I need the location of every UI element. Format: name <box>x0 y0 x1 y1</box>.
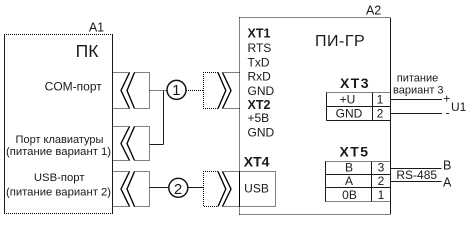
connector X1 COM side plug <box>127 73 150 109</box>
text питание вариант 3 <box>393 72 444 96</box>
connector X3 keyboard port socket <box>113 127 130 161</box>
svg-text:XT5: XT5 <box>340 144 370 160</box>
svg-text:вариант 3: вариант 3 <box>393 85 444 97</box>
svg-text:Порт клавиатуры: Порт клавиатуры <box>16 134 104 146</box>
wire B stub <box>391 168 442 170</box>
wire +U stub <box>391 99 443 101</box>
svg-text:2: 2 <box>377 107 384 121</box>
connector X2 XT1/XT2 side plug <box>204 73 226 109</box>
svg-text:USB-порт: USB-порт <box>34 172 85 184</box>
svg-text:1: 1 <box>172 82 180 99</box>
svg-text:ПК: ПК <box>76 41 100 61</box>
svg-text:RS-485: RS-485 <box>396 168 437 182</box>
connector X3 keyboard port plug <box>127 127 150 161</box>
svg-text:GND: GND <box>248 84 275 98</box>
block A1 box (PC) <box>4 35 113 214</box>
svg-text:XT4: XT4 <box>244 154 270 170</box>
connector X5 XT4 side plug <box>204 172 226 207</box>
svg-text:U1: U1 <box>451 100 467 114</box>
svg-text:B: B <box>345 161 353 175</box>
svg-text:A1: A1 <box>89 21 104 35</box>
svg-text:TxD: TxD <box>248 55 270 69</box>
svg-text:(питание вариант 1): (питание вариант 1) <box>6 146 111 158</box>
svg-text:+U: +U <box>340 92 356 106</box>
connector X4 USB side plug <box>127 172 150 207</box>
svg-text:GND: GND <box>248 126 275 140</box>
svg-text:+: + <box>443 92 450 106</box>
wire A stub <box>391 181 442 183</box>
wire keyboard stub <box>150 144 164 146</box>
svg-text:XT3: XT3 <box>340 75 370 91</box>
svg-text:GND: GND <box>336 107 363 121</box>
svg-text:A: A <box>443 175 452 189</box>
wire GND stub <box>391 113 443 115</box>
svg-text:1: 1 <box>377 92 384 106</box>
svg-text:COM-порт: COM-порт <box>45 80 103 94</box>
connector XT5 pin table <box>326 162 391 202</box>
svg-text:(питание вариант 2): (питание вариант 2) <box>6 186 111 198</box>
svg-text:RxD: RxD <box>248 70 272 84</box>
svg-text:0B: 0B <box>342 188 357 202</box>
wire 1 left segment <box>150 90 168 92</box>
cable marker circle 1 <box>167 80 186 99</box>
wire 2 left segment <box>150 187 169 189</box>
svg-text:B: B <box>443 159 451 173</box>
svg-text:+5B: +5B <box>248 111 270 125</box>
connector X1 COM side socket <box>113 73 130 109</box>
svg-text:1: 1 <box>378 188 385 202</box>
svg-text:3: 3 <box>378 161 385 175</box>
svg-text:RTS: RTS <box>248 41 272 55</box>
block A2 box (PI-GR) <box>240 18 391 215</box>
svg-text:-: - <box>446 106 450 120</box>
svg-text:XT2: XT2 <box>248 98 271 112</box>
svg-text:A2: A2 <box>366 4 381 18</box>
svg-text:USB: USB <box>244 182 269 196</box>
connector X2 XT1/XT2 side socket <box>223 73 240 109</box>
socket XT4 USB box <box>240 172 276 207</box>
svg-text:ПИ-ГР: ПИ-ГР <box>315 33 365 50</box>
svg-text:XT1: XT1 <box>248 27 271 41</box>
svg-text:A: A <box>345 174 353 188</box>
wire 2 right segment <box>188 187 204 189</box>
connector X4 USB side socket <box>113 172 130 207</box>
wire keyboard riser to wire 1 <box>163 91 165 145</box>
svg-text:2: 2 <box>174 181 182 198</box>
wire 1 right segment <box>186 90 204 92</box>
svg-text:2: 2 <box>378 174 385 188</box>
connector X5 XT4 side socket <box>223 172 240 207</box>
connector XT3 pin table <box>327 93 391 121</box>
cable marker circle 2 <box>169 178 188 198</box>
svg-text:питание: питание <box>397 72 438 84</box>
